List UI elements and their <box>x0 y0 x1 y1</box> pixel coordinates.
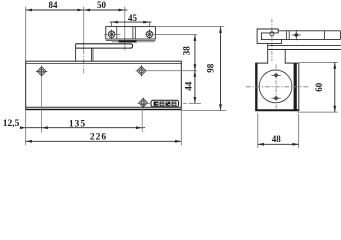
dimension 226 line <box>26 140 182 142</box>
dimension 45 line <box>110 21 152 24</box>
arm dark segment <box>119 40 137 42</box>
bracket inner divider 2 <box>132 27 134 39</box>
dimension 84 line <box>26 9 84 12</box>
arm band bottom line <box>268 49 341 51</box>
arm channel grey strip under bracket <box>112 40 155 42</box>
pinion axis centerline x=83.7 <box>83 7 85 50</box>
slide bracket lower line <box>106 40 156 42</box>
98 top extension line <box>155 26 224 28</box>
svg-text:44: 44 <box>183 81 193 91</box>
side body bottom thick <box>256 109 299 111</box>
closer body outline <box>26 61 182 109</box>
48 right extension <box>298 114 300 148</box>
extension from upper right screw to 44 dim <box>136 70 197 72</box>
shoe pivot circle <box>270 32 274 36</box>
98 bottom extension line <box>182 110 227 112</box>
svg-text:60: 60 <box>314 82 324 92</box>
lower screw centerline dashes right <box>137 102 150 104</box>
svg-text:84: 84 <box>49 0 59 10</box>
dimension 12,5 + 135 line <box>20 127 145 129</box>
shoe pivot centerline <box>271 19 273 61</box>
body screw lower right <box>139 98 148 108</box>
extension line from lower right screw down <box>141 107 143 132</box>
side body left edge thick <box>256 63 258 111</box>
bracket inner divider 1 <box>116 27 118 39</box>
arm shoe (C bracket, side) <box>257 29 281 43</box>
extension line x=124.8 <box>124 7 126 51</box>
slide bracket outline <box>106 27 156 39</box>
dimension 60 line <box>334 62 336 112</box>
bracket screw right <box>146 29 153 39</box>
svg-text:98: 98 <box>205 63 215 73</box>
arm foot right edge 2 <box>92 48 94 61</box>
slide rail bottom <box>282 38 341 40</box>
135 right arrow <box>136 126 142 129</box>
bracket screw right centerline / extension to 38 dim <box>145 34 197 36</box>
slide rail (side) top <box>278 30 340 32</box>
right body edge extension <box>180 109 182 145</box>
60 bottom extension <box>298 111 338 113</box>
side valve screw bottom <box>271 96 280 101</box>
GEZE logo <box>151 100 179 106</box>
closer body thick bottom edge <box>26 106 182 108</box>
dimension 98 line <box>220 27 222 111</box>
body screw left <box>36 66 48 78</box>
closer body inner top line <box>26 63 182 65</box>
side body vertical centerline <box>275 65 277 110</box>
bracket inner divider 3 <box>134 27 136 39</box>
svg-text:50: 50 <box>97 0 107 10</box>
dimension 44 line <box>194 71 196 104</box>
side body outline <box>256 63 299 111</box>
12,5 left arrow (outside) <box>20 126 26 129</box>
60 top extension <box>300 61 338 63</box>
svg-text:38: 38 <box>182 46 192 56</box>
bracket screw left centerline <box>104 33 121 35</box>
body screw left extension down <box>41 76 43 133</box>
spring circle <box>259 70 292 103</box>
svg-text:226: 226 <box>90 132 107 142</box>
rail divider pair <box>286 31 288 40</box>
dimension 38 line <box>194 35 196 71</box>
hidden top edge under pinion boss <box>268 62 284 64</box>
side valve screw top <box>271 73 280 78</box>
12,5 right / 135 left arrow <box>42 126 48 129</box>
extension line left (x=25.7 top) <box>25 7 27 62</box>
arm foot left edge <box>75 44 77 61</box>
side body right edge thick <box>294 63 297 111</box>
dimension 48 line <box>258 143 299 145</box>
pinion boss right <box>284 50 286 64</box>
svg-text:135: 135 <box>69 119 86 129</box>
bracket screw left <box>108 29 115 39</box>
arm link (rounded end bar) <box>76 44 133 48</box>
svg-text:12,5: 12,5 <box>3 119 20 129</box>
rail screw cross <box>292 30 302 40</box>
left extension lower <box>25 109 27 145</box>
45 extension ticks <box>111 22 113 27</box>
arm foot right edge <box>91 48 93 61</box>
svg-text:48: 48 <box>272 134 282 144</box>
slide rail end cap <box>339 31 341 40</box>
body screw upper right <box>137 65 146 77</box>
arm band (side) top line <box>268 45 341 47</box>
rail divider right <box>323 31 325 40</box>
pinion boss left <box>267 43 269 63</box>
dimension 50 line <box>84 9 128 12</box>
side body horizontal centerline <box>246 86 309 88</box>
48 left extension <box>257 113 259 148</box>
svg-text:45: 45 <box>128 13 138 23</box>
